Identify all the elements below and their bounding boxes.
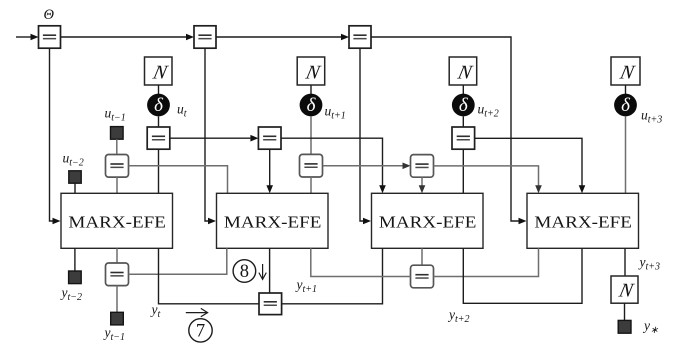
equality node EQC1 (gray, y_t-1) (106, 263, 129, 286)
wire: EQT1 to EQT2 (61, 34, 195, 41)
wire: EQC1 down to y_t-1 square (gray) (116, 286, 118, 313)
svg-text:δ: δ (621, 95, 631, 116)
wire: u_t-1 square to EQB1 (gray) (116, 139, 118, 154)
observed node y_t-2 (square) (69, 271, 82, 284)
wire: EQT2 down into MARX2 (205, 48, 216, 224)
wire: prior arrow into equality node Theta chain (16, 34, 39, 41)
factor N1 (Gaussian prior on u_t) (145, 57, 173, 85)
wire: N4 to delta4 (625, 85, 627, 94)
factor N2 (Gaussian prior on u_t+1) (297, 57, 325, 85)
wire: EQA1 right into EQA2 (170, 135, 259, 142)
wire: EQB1 right, bend down into MARX2 (gray) (129, 166, 228, 194)
wire: EQT3 to MARX4 (bend at x=511) (371, 37, 527, 224)
wire: u_t-2 square to MARX1 (74, 183, 76, 193)
wire: MARX3 down to EQC3 (gray) (421, 248, 423, 265)
wire: EQT3 down into MARX3 (360, 48, 371, 224)
wire: EQA3 right, bend down into MARX4 (475, 138, 586, 193)
wire: EQT1 down into MARX1 (50, 48, 61, 224)
wire: MARX4 down to N goal prior (624, 248, 626, 276)
svg-text:MARX-EFE: MARX-EFE (68, 212, 166, 231)
wire: EQC3 right, bend up into MARX4 (gray) (434, 248, 539, 276)
message 8 circled number (233, 260, 256, 283)
svg-text:MARX-EFE: MARX-EFE (379, 212, 477, 231)
wire: EQA3 down to MARX3 (462, 149, 464, 193)
equality node EQC3 (gray, y_t+2) (411, 265, 434, 288)
svg-text:Θ: Θ (44, 7, 55, 23)
wire: N3 to delta3 (462, 85, 464, 94)
wire: delta4 down to MARX4 (gray) (625, 116, 627, 193)
equality node EQA2 (258, 127, 281, 149)
wire: EQT2 to EQT3 (216, 34, 349, 41)
wire: EQC2 right, bend up into MARX3 (282, 248, 383, 303)
wire: MARX3 y_t+2 output loop into MARX4 (463, 248, 582, 303)
observed node u_t-1 (square) (111, 127, 124, 140)
equality node EQB2 (gray, u_t+1 memory) (300, 154, 323, 177)
wire: MARX1 y_t output, bend right into EQC2 (159, 248, 260, 303)
svg-text:δ: δ (307, 95, 317, 116)
factor MARX3 (372, 193, 484, 248)
svg-text:δ: δ (154, 95, 164, 116)
factor delta2 (300, 94, 323, 117)
svg-text:MARX-EFE: MARX-EFE (534, 212, 632, 231)
factor N4 (Gaussian prior on u_t+3) (611, 57, 640, 85)
wire: MARX2 down to EQC2 (269, 248, 271, 293)
equality node EQC2 (y_t+1) (259, 293, 282, 315)
equality node EQT2 (194, 26, 216, 48)
wire: delta3 to EQA3 (462, 116, 464, 127)
factor N3 (Gaussian prior on u_t+2) (449, 57, 477, 85)
factor delta1 (147, 94, 170, 117)
factor delta4 (614, 94, 637, 117)
svg-text:MARX-EFE: MARX-EFE (224, 212, 322, 231)
equality node EQT1 (top row, parameter chain) (39, 26, 61, 48)
observed node u_t-2 (square) (69, 171, 81, 183)
wire: EQB3 down arrow into MARX3 (gray) (419, 177, 426, 193)
wire: EQA2 down arrow into MARX2 (266, 149, 273, 193)
wire: MARX1 down to EQC1 (gray) (116, 248, 118, 263)
message 7 circled number (189, 319, 212, 342)
observed node y_t-1 (square) (111, 312, 124, 325)
wire: EQB2 right arrow into EQB3 (gray) (323, 163, 411, 170)
factor MARX1 (61, 193, 173, 248)
factor MARX2 (217, 193, 329, 248)
svg-text:7: 7 (196, 322, 205, 342)
wire: N goal prior to y_* square (624, 303, 626, 320)
wire: EQB2 down to MARX2 (gray) (310, 177, 312, 193)
svg-text:8: 8 (240, 262, 249, 282)
wire: delta2 down to EQB2 (gray) (310, 116, 312, 154)
observed node y_* (square) (618, 320, 631, 333)
equality node EQA1 (u_t) (147, 127, 170, 149)
wire: EQB3 right, bend down into MARX4 (gray) (434, 166, 542, 193)
wire: MARX1 down to y_t-2 square (74, 248, 76, 271)
wire: EQA1 down to MARX1 (158, 149, 160, 193)
svg-text:δ: δ (459, 95, 469, 116)
factor MARX4 (527, 193, 639, 248)
wire: EQC1 right, bend up into MARX2 (gray) (129, 248, 227, 274)
message 7 arrow glyph (186, 308, 208, 316)
wire: EQA2 right, bend down into MARX3 (281, 138, 386, 193)
equality node EQB3 (gray) (411, 155, 434, 178)
wire: N1 to delta1 (158, 85, 160, 94)
wire: EQC3 left, bend up into MARX2 (gray) (311, 248, 411, 276)
wire: N2 to delta2 (310, 85, 312, 94)
equality node EQB1 (gray, u_t-1) (106, 155, 129, 178)
wire: delta1 to EQA1 (158, 116, 160, 127)
equality node EQT3 (349, 26, 371, 48)
factor N goal prior (611, 276, 638, 303)
message 8 down arrow glyph (259, 264, 266, 279)
factor delta3 (452, 94, 475, 117)
equality node EQA3 (452, 127, 475, 149)
wire: EQB1 down to MARX1 (gray) (116, 177, 118, 193)
